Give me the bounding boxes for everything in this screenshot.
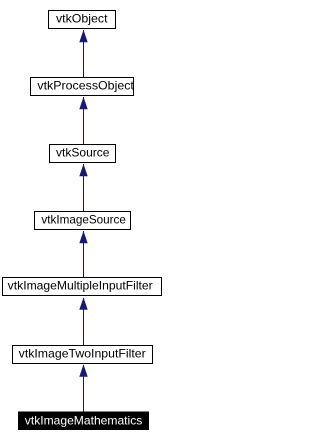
- inheritance arrow vtkImageMathematics -> vtkImageTwoInputFilter: [79, 364, 87, 412]
- inheritance arrow vtkProcessObject -> vtkObject: [79, 30, 87, 78]
- inheritance arrow vtkImageTwoInputFilter -> vtkImageMultipleInputFilter: [79, 297, 87, 346]
- class box vtkObject: [49, 11, 116, 29]
- inheritance arrow vtkSource -> vtkProcessObject: [79, 97, 87, 145]
- svg-text:vtkImageMultipleInputFilter: vtkImageMultipleInputFilter: [8, 278, 153, 292]
- svg-text:vtkSource: vtkSource: [56, 145, 110, 159]
- inheritance arrow vtkImageMultipleInputFilter -> vtkImageSource: [79, 231, 87, 279]
- class box vtkImageMultipleInputFilter: [3, 278, 162, 296]
- svg-text:vtkImageMathematics: vtkImageMathematics: [25, 413, 143, 427]
- class box vtkImageSource: [35, 212, 131, 230]
- svg-text:vtkImageTwoInputFilter: vtkImageTwoInputFilter: [19, 346, 146, 360]
- class box vtkProcessObject: [31, 78, 135, 96]
- svg-text:vtkImageSource: vtkImageSource: [41, 212, 126, 226]
- class box vtkImageMathematics (current class, black): [18, 412, 149, 431]
- inheritance arrow vtkImageSource -> vtkSource: [79, 164, 87, 212]
- class box vtkSource: [50, 145, 116, 163]
- class box vtkImageTwoInputFilter: [13, 346, 153, 364]
- svg-text:vtkProcessObject: vtkProcessObject: [37, 78, 134, 92]
- svg-text:vtkObject: vtkObject: [56, 11, 108, 25]
